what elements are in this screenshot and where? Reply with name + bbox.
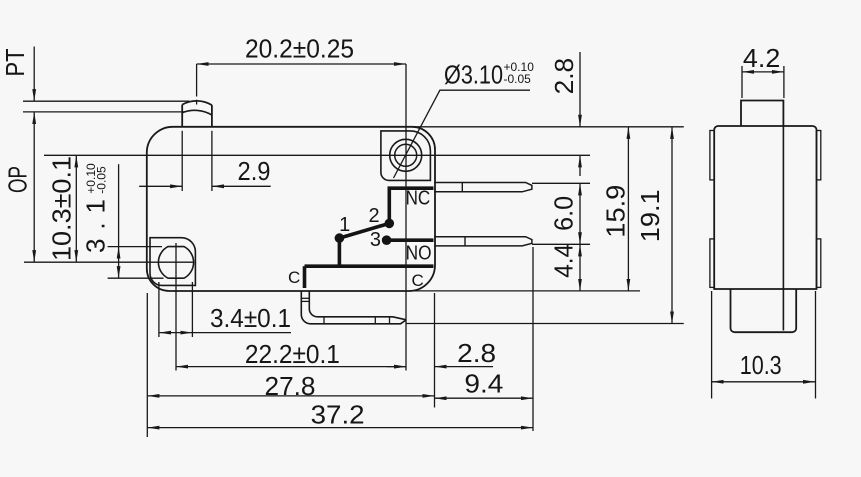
NC contact lead	[389, 188, 433, 221]
plunger right edge	[211, 105, 213, 127]
terminal tip extension down	[532, 247, 534, 431]
plunger left extension	[181, 131, 183, 191]
side tab upper left	[710, 131, 714, 180]
dim OP line	[33, 112, 35, 262]
dim 10.3 side left extension	[711, 291, 713, 399]
NC terminal	[434, 183, 532, 192]
dim 3.4 line	[159, 332, 193, 334]
dim 4.2 left extension	[741, 66, 743, 98]
common pivot drop	[338, 238, 342, 266]
dim 15.9 line	[627, 127, 629, 291]
dimension texts	[0, 34, 782, 430]
dim 10.3 left line	[75, 155, 77, 262]
svg-text:NO: NO	[406, 243, 432, 265]
side bottom block	[731, 289, 797, 332]
side body	[714, 126, 816, 289]
slot top extension	[108, 246, 162, 248]
operating position line	[23, 111, 186, 113]
svg-text:2: 2	[368, 205, 379, 227]
svg-text:3.1: 3.1	[81, 199, 111, 253]
NO contact lead	[387, 238, 434, 242]
plunger dome operating-position arc	[182, 110, 212, 115]
svg-text:9.4: 9.4	[464, 369, 503, 399]
svg-text:C: C	[412, 271, 424, 290]
dim 2.8 bottom right arrow	[435, 366, 494, 368]
mounting hole outer circle	[390, 139, 422, 171]
side tab lower left	[710, 239, 714, 288]
bottom-left mounting boss	[150, 238, 195, 286]
contact dot 2	[385, 219, 395, 229]
dim 22.2 line	[176, 366, 406, 368]
svg-text:NC: NC	[406, 188, 431, 210]
bottom-left slot hole	[158, 247, 193, 279]
plunger dome free-position arc	[182, 101, 212, 105]
svg-text:15.9: 15.9	[601, 185, 631, 238]
svg-text:2.8: 2.8	[549, 58, 579, 95]
internal contact schematic (thick)	[305, 188, 434, 288]
svg-text:C: C	[288, 268, 300, 287]
dim 2.9 right tail	[212, 185, 271, 187]
svg-text:Ø3.10: Ø3.10	[444, 60, 503, 90]
NO terminal bend line	[464, 237, 466, 246]
extension and center lines	[23, 64, 684, 437]
side view	[710, 101, 821, 333]
common stub	[303, 266, 307, 288]
slot left extension down	[158, 282, 160, 337]
NC tip extension	[532, 182, 590, 184]
svg-text:27.8: 27.8	[265, 371, 316, 401]
dim 2.8 top lower arrow	[579, 155, 581, 176]
dim 2.8 bottom left arrow	[387, 366, 406, 368]
contact dot 1	[335, 233, 345, 243]
movable blade	[339, 223, 389, 238]
dim 3.4 tail	[192, 332, 291, 334]
side tab upper right	[817, 131, 821, 180]
svg-text:2.9: 2.9	[238, 156, 271, 186]
dim 20.2 line	[197, 63, 407, 65]
svg-text:6.0: 6.0	[549, 196, 579, 231]
body right extension down	[434, 293, 436, 408]
dim 19.1 line	[671, 127, 673, 324]
svg-text:PT: PT	[0, 48, 30, 76]
body top extension right	[412, 126, 684, 128]
common lead	[305, 264, 434, 268]
dim 27.8 line	[147, 395, 434, 397]
dim 2.9 left tail	[139, 185, 182, 187]
slot centerline vertical	[175, 243, 177, 371]
slot bottom extension	[108, 277, 164, 279]
svg-text:2.8: 2.8	[457, 338, 496, 368]
plunger right extension	[211, 131, 213, 191]
dim 10.3 side line	[712, 381, 816, 383]
slot right extension down	[191, 282, 193, 337]
dim 3.1 tail	[118, 164, 120, 246]
svg-text:22.2±0.1: 22.2±0.1	[245, 339, 340, 369]
svg-text:10.3±0.1: 10.3±0.1	[47, 156, 77, 261]
top-right mounting boss	[381, 131, 431, 181]
hole centerline vertical long	[405, 64, 407, 371]
C terminal tick 4	[374, 317, 376, 324]
mounting hole inner circle	[395, 144, 417, 166]
svg-text:37.2: 37.2	[311, 400, 365, 430]
C terminal tick 3	[323, 317, 325, 324]
dim 6.0 line	[579, 183, 581, 244]
dim 2.8 top upper arrow	[579, 52, 581, 127]
side tab lower right	[817, 239, 821, 288]
C terminal bracket inner edge	[309, 291, 406, 320]
svg-text:4.2: 4.2	[743, 43, 780, 73]
body bottom extension right	[409, 290, 640, 292]
svg-text:-0.05: -0.05	[504, 72, 532, 86]
plunger centerline (dash-dot)	[196, 64, 198, 97]
NO terminal	[434, 237, 532, 246]
plunger left edge	[181, 105, 183, 127]
svg-text:OP: OP	[3, 166, 33, 193]
svg-text:3.4±0.1: 3.4±0.1	[210, 303, 291, 333]
C terminal bracket outer edge	[301, 291, 406, 324]
svg-text:19.1: 19.1	[635, 189, 665, 242]
hole centerline horizontal	[44, 154, 590, 156]
dim 9.4 line	[435, 397, 534, 399]
NO tip extension	[532, 243, 590, 245]
dim 10.3 side right extension	[815, 291, 817, 399]
svg-text:10.3: 10.3	[740, 350, 782, 380]
side parting line	[782, 126, 784, 331]
free position line	[23, 100, 190, 102]
slot centerline horizontal	[24, 261, 194, 263]
switch body outline (front view)	[147, 127, 435, 291]
C terminal bend tick 1	[301, 297, 309, 299]
dim 3.1 line	[118, 247, 120, 279]
C bracket bottom extension	[406, 323, 684, 325]
C terminal tick 5	[389, 317, 391, 324]
svg-text:4.4: 4.4	[549, 244, 579, 278]
NC terminal bend line	[461, 183, 463, 192]
svg-text:3: 3	[370, 229, 381, 251]
dim 4.2 line	[742, 71, 784, 73]
svg-text:20.2±0.25: 20.2±0.25	[245, 34, 354, 64]
body left extension down	[146, 293, 148, 437]
dim 4.4 line	[579, 244, 581, 291]
dim PT arrow	[33, 47, 35, 102]
svg-text:-0.05: -0.05	[95, 166, 109, 194]
dim 37.2 line	[147, 427, 533, 429]
dimension lines	[34, 47, 672, 428]
svg-text:1: 1	[339, 214, 350, 236]
C terminal bend tick 2	[301, 300, 309, 302]
contact dot 3	[382, 235, 392, 245]
leader line for hole callout	[394, 90, 531, 178]
side plunger	[741, 101, 783, 127]
dim 4.2 right extension	[783, 66, 785, 98]
